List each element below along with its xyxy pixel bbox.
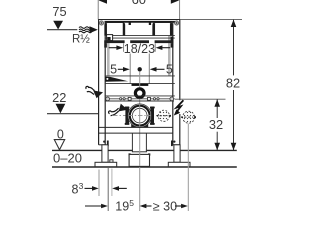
left leg clamp [99,144,106,146]
plate reference line to dim 32 [175,98,226,100]
svg-text:R½: R½ [72,34,90,46]
bottom ext line x112 [111,169,113,197]
small notch box left [107,35,113,41]
dim 60 arrow right [171,0,179,4]
corner screw right [175,21,179,25]
plate middle line through holes [105,98,175,100]
svg-text:19: 19 [115,199,129,213]
alt electrical dashed circle 2 [183,111,195,123]
left rail outer [98,20,100,145]
left foot [110,160,113,163]
cistern block left (white box, thick walls) [105,22,125,35]
dim 8-3 arrow left [85,187,94,189]
right leg clamp [173,144,180,146]
filler tab left [129,22,131,25]
center dot [138,67,142,71]
dim 18/23 ext line right [154,43,156,52]
dim 60 extension line left [97,0,99,20]
mounting plate top line [105,95,175,97]
plate screw left [106,97,110,101]
bracket bar above inlet ring [132,84,149,86]
svg-text:18/23: 18/23 [124,42,155,56]
svg-text:32: 32 [209,117,223,132]
level marker 75 [47,4,77,30]
level marker 22 [47,90,99,114]
dim 5 right arrow [156,68,165,70]
drain fitting box [129,154,149,166]
drain pipe left edge [131,133,133,152]
right leg [174,145,180,163]
frame top ref line to dim 82 [180,18,242,20]
bottom crossbar top [99,126,173,128]
bend crosshair visible inside [129,115,152,117]
bottom crossbar bottom [99,132,173,134]
hand symbol upper (outside left rail) [86,86,103,98]
drain pipe bottom edge [132,151,147,153]
water supply symbol R1/2 (waves + arrow) [79,27,91,33]
bend saddle [131,124,148,128]
bottom ext line x108 [107,168,109,211]
dim 18/23 arrow left [109,47,118,49]
raw floor line [52,166,237,168]
discharge bend inner [132,108,147,123]
plate square hole left [128,97,131,100]
svg-text:60: 60 [132,0,146,7]
drain fitting collar nubs [129,153,131,155]
plate square hole right [148,97,151,100]
level marker 0 (open triangle) [54,127,64,149]
right rail outer [179,20,181,145]
svg-text:75: 75 [52,4,66,19]
discharge bend centerline horizontal [112,115,168,117]
cistern side wall shading right [168,36,171,76]
plate holes right pair [153,98,155,100]
cistern bottom dark band seg2 [130,40,149,43]
corner screw left [99,21,103,25]
band corner nub left [104,43,107,48]
electrical lightning symbol [174,100,184,114]
drain pipe right edge [145,133,147,152]
cistern inner line 2 [105,37,175,39]
lower cistern line [105,83,175,85]
dim 32 arrow down [214,143,220,150]
dim 32 line [216,99,218,118]
drain pipe interior mask [133,149,146,152]
small dark fitting right [171,37,174,41]
center line vertical [139,72,141,211]
plate holes left pair [120,98,122,100]
flush rod line right [148,54,150,84]
dim 82 arrow up [231,20,237,27]
svg-text:5: 5 [110,62,117,76]
cistern top edge (thick) [105,21,176,23]
band corner nub right [171,43,174,48]
dim 82 arrow down [231,143,237,150]
svg-text:5: 5 [166,62,173,76]
hand symbol lower (inside, pointing to bend) [109,104,128,116]
cistern inner line 1 [105,35,175,37]
svg-text:82: 82 [226,75,240,90]
svg-text:0–20: 0–20 [53,150,82,165]
cistern bottom dark band seg1 [104,40,124,43]
dim 82 line [233,20,235,76]
flush bend wedge [105,77,128,82]
bend clamp left [125,107,130,125]
dim >=30 arrow left [140,204,147,209]
discharge bend ring [130,106,150,126]
floor line 0 (finished floor) [52,149,237,151]
filler tab right [149,22,151,25]
dim 18/23 ext line left [123,43,125,52]
plate screw right [170,97,174,101]
mounting plate bottom line [105,100,175,102]
dim 60 arrow left [99,0,107,4]
right rail inner [172,21,174,145]
left rail inner [104,21,106,145]
dim 8-3 arrow right [118,187,127,189]
frame top bar [98,19,180,21]
dim 19-5 arrow left [85,205,102,207]
cistern bottom dark band seg3 [155,40,174,43]
dim 5 left arrow [118,68,124,70]
cistern side wall shading left [107,36,110,76]
flush rod line left [129,54,131,84]
left leg [102,145,108,163]
dim >=30 arrow right [175,205,182,207]
alt outlet dashed circle 1 [158,110,169,121]
svg-text:5: 5 [129,198,134,208]
svg-text:22: 22 [52,90,66,105]
discharge bend outer [128,104,151,127]
dim 60 extension line right [179,0,181,20]
ext line from circle 2 down [187,124,189,212]
cistern block right (white box, thick walls) [153,22,172,35]
bend clamp right [150,107,155,125]
right foot [168,162,190,166]
dim 18/23 arrow right [161,47,170,49]
svg-text:≥ 30: ≥ 30 [153,199,177,213]
bottom ext line x99 [98,170,100,197]
svg-text:8: 8 [72,182,79,196]
cistern bottom line [105,75,175,77]
dim 32 arrow up [214,99,220,106]
water supply arrow [90,26,98,33]
inlet ring [135,89,144,98]
svg-text:3: 3 [79,181,84,191]
